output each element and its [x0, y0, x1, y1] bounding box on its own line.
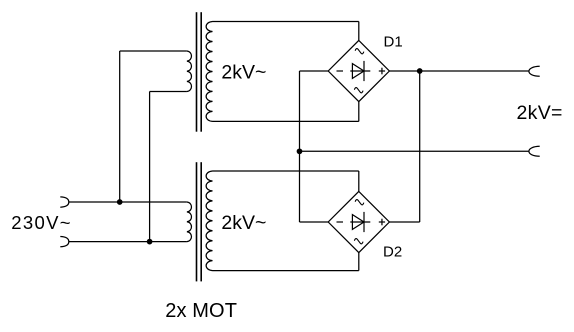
wire: T1 primary top lead	[120, 50, 187, 52]
junction dot at bottom input branch	[147, 239, 153, 245]
wire: vertical branch up to T1 primary bottom	[149, 92, 151, 242]
wire: T1 primary bottom lead	[150, 91, 187, 93]
bridge rectifier D2 diamond outline	[328, 191, 389, 252]
wire: D2 left corner stub	[300, 221, 329, 223]
input terminal (230V~ neutral)	[60, 237, 69, 247]
D2 AC tilde mark (top corner)	[355, 200, 364, 205]
svg-text:2kV=: 2kV=	[517, 102, 563, 124]
svg-text:2kV~: 2kV~	[221, 62, 266, 84]
wire: T2 secondary top lead	[213, 170, 359, 172]
wire: T1 secondary top lead	[213, 21, 359, 23]
D2 internal diode symbol	[350, 212, 370, 232]
output terminal (2kV= negative)	[529, 146, 540, 156]
transformer T2 core	[197, 162, 202, 281]
wire: top input to T2 primary top	[69, 201, 187, 203]
D1 AC tilde mark (top corner)	[355, 49, 364, 54]
wire: vertical branch up to T1 primary top	[119, 51, 121, 202]
wire: vertical bus D1 left to D2 left	[299, 71, 301, 222]
svg-text:230V~: 230V~	[11, 212, 72, 233]
wire: T1 secondary bottom lead	[213, 120, 359, 122]
svg-text:D1: D1	[384, 34, 403, 51]
transformer T2 primary winding	[187, 202, 192, 242]
svg-text:D2: D2	[383, 244, 402, 261]
wire: D1 right corner to positive output	[389, 70, 529, 72]
transformer T1 secondary winding	[206, 22, 212, 122]
svg-text:2x MOT: 2x MOT	[165, 300, 237, 322]
wire: vertical bus D1 right to D2 right	[419, 71, 421, 222]
D2 plus mark (right corner)	[379, 219, 385, 226]
wire: bottom input to T2 primary bottom	[69, 241, 187, 243]
D1 plus mark (right corner)	[379, 68, 385, 75]
D1 minus mark (left corner)	[337, 70, 344, 72]
output terminal (2kV= positive)	[529, 66, 540, 76]
D1 AC tilde mark (bottom corner)	[354, 88, 363, 93]
wire: down to D1 top corner	[358, 22, 360, 41]
junction dot positive bus	[417, 68, 423, 74]
junction dot negative bus	[297, 148, 303, 154]
input terminal (230V~ line)	[60, 197, 69, 207]
wire: middle negative output	[300, 150, 529, 152]
junction dot at top input branch	[117, 199, 123, 205]
D2 minus mark (left corner)	[337, 221, 344, 223]
wire: D2 bottom corner down to T2 secondary bottom	[358, 253, 360, 271]
transformer T1 primary winding	[187, 51, 192, 92]
wire: D2 right corner stub	[389, 221, 419, 223]
wire: down to D2 top corner	[358, 171, 360, 191]
svg-text:2kV~: 2kV~	[221, 212, 266, 234]
transformer T2 secondary winding	[206, 171, 212, 271]
transformer T1 core	[197, 12, 202, 132]
bridge rectifier D1 diamond outline	[328, 40, 389, 101]
wire: T2 secondary bottom lead	[213, 270, 359, 272]
D2 AC tilde mark (bottom corner)	[354, 239, 363, 244]
wire: D1 left corner stub	[300, 70, 329, 72]
D1 internal diode symbol	[350, 61, 370, 81]
wire: D1 bottom corner down to T1 secondary bottom	[358, 102, 360, 122]
